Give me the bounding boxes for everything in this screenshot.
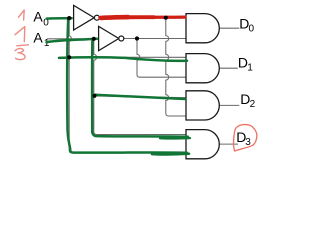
wire ~A1 rail from NOT2 output down (hop over D1-top branch) to D1 bottom input <box>137 39 187 78</box>
annotation green second pass on D3 top input <box>160 137 190 140</box>
annotation red highlight on ~A0 wire (NOT1 output = 0) <box>100 15 185 19</box>
svg-text:1: 1 <box>247 63 253 74</box>
junction dot A1 rail to D2 branch <box>92 94 96 98</box>
annotation green highlight A0 branch to D1 top input <box>59 57 187 61</box>
annotation green highlight A1 rail down to D3 top input <box>92 41 188 137</box>
annotation handwritten red mark "1" (second) <box>15 27 25 42</box>
AND gate D1 <box>186 54 219 83</box>
wire NOT1 output node ~A0 to D0 top input <box>99 17 186 19</box>
svg-text:1: 1 <box>44 38 50 49</box>
annotation red loop around D3 label <box>233 125 256 151</box>
AND gate D0 <box>186 14 219 43</box>
annotation handwritten red mark "3" with overline <box>15 45 28 60</box>
wire A0 branch to D1 top input <box>69 56 186 58</box>
wire D1 output <box>219 67 238 69</box>
wire NOT2 output node ~A1 to D0 bottom input <box>124 38 187 40</box>
annotation green highlight A1 branch to D2 top input <box>95 95 185 99</box>
svg-text:A: A <box>33 29 43 45</box>
wire D2 output <box>219 104 239 106</box>
wire ~A0 rail from NOT1 output down (hops over 4 horizontals) to D2 bottom input <box>166 18 187 116</box>
AND gate D3 <box>186 130 219 159</box>
junction dot A0 stub / rail <box>67 16 71 20</box>
annotation red highlight thicker left pass <box>101 15 128 20</box>
junction dot A1 stub / rail <box>92 37 96 41</box>
wire A1 branch to D2 top input <box>95 96 187 98</box>
annotation green highlight A1 stub <box>47 39 98 43</box>
annotation handwritten red mark "1" (top) <box>19 10 25 20</box>
junction dot A0 rail to D1 branch <box>67 55 71 59</box>
svg-text:2: 2 <box>250 99 256 110</box>
annotation red highlight mid taper pass <box>124 15 154 19</box>
svg-text:A: A <box>33 9 43 25</box>
junction dot ~A1 node on NOT2 output <box>135 36 139 40</box>
wire A1 vertical rail (hop over D1-top branch) down to D3 top input <box>94 39 187 135</box>
annotation green highlight A0 stub <box>47 17 72 20</box>
svg-text:0: 0 <box>249 24 255 35</box>
annotation green highlight A0 rail down to D3 bottom input <box>67 19 187 153</box>
annotation green second pass on D3 bottom input <box>152 152 189 155</box>
wire D3 output <box>219 143 238 145</box>
wire D0 output <box>219 27 239 29</box>
inverter NOT1 (input A0) <box>74 5 100 30</box>
AND gate D2 <box>186 91 219 120</box>
junction dot ~A0 node on NOT1 output <box>164 16 168 20</box>
wire A0 vertical rail (hop over A1 stub) down to D3 bottom input <box>69 18 186 153</box>
wire A1 input stub <box>47 38 99 40</box>
wire A0 input stub <box>47 17 74 19</box>
inverter NOT2 (input A1) <box>99 26 124 50</box>
